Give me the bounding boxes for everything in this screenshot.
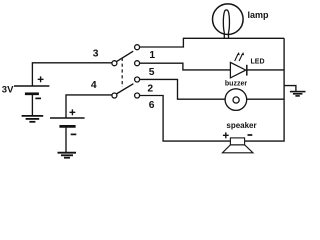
- svg-text:4: 4: [91, 80, 97, 91]
- svg-text:3: 3: [93, 48, 99, 59]
- svg-text:2: 2: [147, 84, 153, 95]
- svg-text:LED: LED: [251, 58, 265, 65]
- svg-text:buzzer: buzzer: [225, 80, 247, 87]
- svg-text:6: 6: [149, 100, 155, 111]
- svg-text:1: 1: [149, 50, 155, 61]
- svg-text:speaker: speaker: [226, 121, 256, 130]
- svg-text:5: 5: [149, 67, 155, 78]
- svg-text:lamp: lamp: [248, 10, 270, 20]
- svg-text:3V: 3V: [2, 85, 14, 96]
